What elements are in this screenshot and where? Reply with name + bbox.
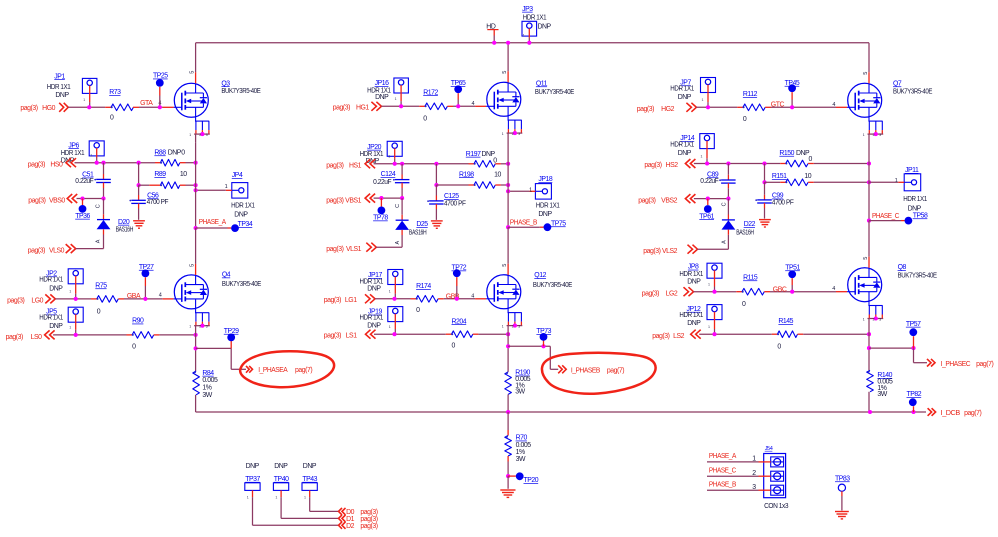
svg-text:R90: R90: [132, 318, 144, 325]
svg-text:0: 0: [416, 307, 420, 314]
svg-text:PHASE_C: PHASE_C: [872, 213, 899, 220]
wire LG2 to R115: [694, 291, 737, 293]
wire R197 to rail: [495, 163, 501, 165]
svg-text:HDR 1X1: HDR 1X1: [679, 312, 703, 319]
svg-text:pag(3): pag(3): [638, 198, 655, 205]
connector JP3 HDR 1X1 DNP: [522, 21, 537, 36]
testpoint TP36: [82, 199, 84, 206]
svg-text:Q3: Q3: [221, 80, 230, 87]
resistor R197 DNP 0: [474, 161, 495, 168]
svg-text:HS1: HS1: [349, 162, 362, 169]
svg-text:R197: R197: [466, 151, 481, 158]
testpoint TP29: [227, 334, 235, 342]
svg-text:HG1: HG1: [356, 105, 369, 112]
transistor Q4: [174, 275, 208, 309]
svg-text:HDR 1X1: HDR 1X1: [523, 15, 547, 22]
svg-text:I_PHASEA: I_PHASEA: [258, 367, 288, 374]
svg-text:TP78: TP78: [373, 215, 388, 222]
svg-text:0: 0: [97, 309, 101, 316]
resistor R140 0.005 1% 3W shunt: [867, 370, 874, 392]
resistor R112: [743, 104, 765, 111]
svg-text:HDR 1X1: HDR 1X1: [360, 279, 384, 286]
wire R190 to bottom bus: [507, 394, 509, 412]
wire PHASE_C to J54: [707, 475, 759, 477]
transistor Q3: [174, 83, 208, 117]
wire rail Q4 source to shunt: [195, 326, 197, 371]
testpoint TP25: [156, 79, 164, 87]
svg-text:TP73: TP73: [536, 328, 551, 335]
svg-text:D20: D20: [118, 219, 130, 226]
svg-text:BUK7Y3R5-40E: BUK7Y3R5-40E: [533, 282, 573, 289]
wire R84 to bottom bus: [195, 395, 197, 412]
svg-text:pag(7): pag(7): [607, 368, 624, 375]
resistor R145: [777, 331, 797, 338]
node PHASE_B: [506, 225, 510, 229]
resistor R89 10: [160, 182, 179, 189]
svg-text:1: 1: [247, 496, 249, 500]
svg-text:DNP: DNP: [49, 286, 63, 293]
svg-text:TP43: TP43: [302, 476, 317, 483]
wire R150 to rail: [808, 163, 814, 165]
svg-text:TP27: TP27: [139, 264, 154, 271]
wire VBS2: [694, 198, 729, 200]
wire R88 to rail: [180, 162, 186, 164]
svg-text:BAS16H: BAS16H: [116, 226, 134, 233]
svg-text:R73: R73: [109, 89, 121, 96]
wire top bus HD net: [196, 42, 869, 44]
svg-text:VBS2: VBS2: [661, 198, 677, 205]
svg-text:HDR 1X1: HDR 1X1: [360, 151, 384, 158]
wire R89 to rail: [180, 184, 186, 186]
svg-text:R75: R75: [95, 282, 107, 289]
svg-text:pag(3): pag(3): [642, 290, 659, 297]
svg-text:1: 1: [701, 154, 703, 158]
svg-text:1%: 1%: [202, 385, 211, 392]
node PHASE_A: [194, 226, 198, 230]
svg-text:GBA: GBA: [127, 293, 141, 300]
svg-text:HDR 1X1: HDR 1X1: [360, 315, 384, 322]
wire HG0 to R73: [68, 106, 105, 108]
wire LG0 to R75: [55, 298, 91, 300]
connector JP6 HDR 1X1: [89, 141, 104, 156]
resistor R150 DNP 0: [786, 160, 808, 167]
svg-text:D25: D25: [416, 221, 428, 228]
connector JP7 HDR 1X1 DNP: [701, 78, 716, 93]
svg-text:DNP: DNP: [367, 322, 381, 329]
svg-text:1: 1: [189, 325, 191, 329]
svg-text:pag(3): pag(3): [326, 197, 343, 204]
svg-text:TP25: TP25: [153, 73, 168, 80]
port D1 pag(3): [339, 515, 346, 522]
svg-text:HDR 1X1: HDR 1X1: [39, 276, 63, 283]
svg-text:DNP: DNP: [274, 463, 288, 470]
testpoint TP65: [454, 85, 462, 93]
svg-text:DNP: DNP: [168, 149, 182, 156]
svg-text:1: 1: [708, 325, 710, 329]
svg-text:HDR 1X1: HDR 1X1: [670, 142, 694, 149]
transistor Q11: [487, 82, 521, 116]
svg-text:BUK7Y3R5-40E: BUK7Y3R5-40E: [221, 88, 261, 95]
wire branch to TP29 and I_PHASEA: [196, 347, 232, 349]
annotation red ellipse I_PHASEA: [240, 351, 334, 387]
svg-text:pag(7): pag(7): [976, 361, 993, 368]
svg-text:JP18: JP18: [538, 176, 553, 183]
wire HS0 branch to R89: [138, 163, 140, 186]
svg-text:TP40: TP40: [274, 476, 289, 483]
wire rail to Q4: [195, 228, 197, 264]
svg-text:LS0: LS0: [31, 334, 43, 341]
testpoint TP61: [707, 199, 709, 206]
testpoint TP45: [788, 84, 796, 92]
svg-text:1: 1: [702, 98, 704, 102]
svg-text:A: A: [96, 239, 102, 243]
connector JP14 HDR 1X1: [700, 134, 715, 149]
svg-text:DNP: DNP: [55, 92, 69, 99]
svg-text:1: 1: [304, 496, 306, 500]
svg-text:PHASE_A: PHASE_A: [709, 453, 737, 460]
wire R145 to rail: [798, 333, 804, 335]
testpoint TP27: [142, 270, 150, 278]
svg-text:JP4: JP4: [232, 172, 243, 179]
svg-text:pag(3): pag(3): [28, 198, 45, 205]
ground C56: [133, 220, 145, 222]
svg-text:R172: R172: [423, 89, 438, 96]
wire GBB net: [438, 298, 444, 300]
connector JP19 HDR 1X1 DNP: [388, 307, 403, 322]
resistor R70 0.005 1% 3W: [505, 436, 512, 457]
svg-text:pag(3): pag(3): [637, 106, 654, 113]
svg-text:0: 0: [181, 149, 185, 156]
svg-text:1: 1: [895, 178, 898, 184]
wire GBA net: [118, 298, 124, 300]
svg-text:5: 5: [863, 72, 869, 75]
wire PHASE_A to J54: [707, 461, 759, 463]
svg-text:pag(3): pag(3): [644, 162, 661, 169]
resistor R73: [111, 104, 133, 111]
wire LS2: [699, 333, 772, 335]
diode D20 BAS16H: [103, 199, 105, 215]
resistor R90: [132, 332, 154, 339]
svg-text:TP45: TP45: [785, 80, 800, 87]
svg-text:VBS0: VBS0: [49, 198, 65, 205]
svg-text:4700 PF: 4700 PF: [444, 200, 466, 207]
wire VBS1: [374, 197, 403, 199]
svg-text:pag(3): pag(3): [324, 297, 341, 304]
wire VLS1: [376, 246, 402, 248]
wire rail Q8 source down: [868, 319, 870, 371]
resistor R190 0.005 1% 3W shunt: [505, 372, 512, 395]
svg-text:0: 0: [452, 342, 456, 349]
svg-text:CON 1x3: CON 1x3: [764, 503, 789, 510]
svg-text:GTA: GTA: [140, 100, 153, 107]
wire phase A drain rail from top bus: [195, 43, 197, 73]
port D0 pag(3): [339, 508, 346, 515]
resistor R174: [416, 296, 438, 303]
svg-text:HG2: HG2: [661, 106, 674, 113]
node PHASE_C: [867, 219, 871, 223]
svg-text:3W: 3W: [877, 391, 887, 398]
svg-text:10: 10: [494, 171, 501, 178]
svg-text:4: 4: [159, 292, 162, 298]
svg-text:pag(3): pag(3): [643, 248, 660, 255]
svg-text:DNP: DNP: [234, 211, 248, 218]
transistor Q12: [487, 275, 521, 309]
svg-text:D0: D0: [346, 509, 355, 516]
wire VLS0: [76, 248, 104, 250]
svg-text:TP36: TP36: [75, 213, 90, 220]
svg-text:C: C: [395, 204, 401, 208]
wire R140 to bottom bus: [868, 392, 870, 412]
svg-text:DNP: DNP: [367, 286, 381, 293]
port I_PHASEC pag(7): [927, 359, 935, 367]
wire HS0 net: [75, 162, 156, 164]
wire phase C rail to PHASE_C: [868, 134, 870, 221]
svg-text:5: 5: [189, 71, 195, 74]
capacitor C56 4700 PF: [138, 185, 140, 195]
connector JP5 HDR 1X1 DNP: [68, 307, 83, 322]
svg-text:JP3: JP3: [522, 6, 533, 13]
svg-text:JP20: JP20: [367, 144, 382, 151]
ground C99: [759, 219, 771, 221]
transistor Q7: [848, 83, 882, 117]
pin 1 J54 PHASE_A: [771, 457, 784, 467]
connector JP1 HDR 1X1 DNP: [82, 78, 97, 93]
svg-text:HS0: HS0: [50, 162, 63, 169]
resistor R84 0.005 1% 3W shunt: [193, 371, 200, 395]
svg-text:HDR 1X1: HDR 1X1: [231, 202, 255, 209]
svg-text:pag(3): pag(3): [360, 523, 377, 530]
annotation red ellipse I_PHASEB: [542, 353, 656, 394]
svg-text:5: 5: [189, 264, 195, 267]
svg-text:pag(7): pag(7): [295, 367, 312, 374]
svg-text:C: C: [722, 202, 728, 206]
wire LG1 to R174: [375, 298, 411, 300]
wire bus to R70: [507, 412, 509, 430]
resistor R151 10: [786, 179, 808, 186]
svg-text:1: 1: [83, 98, 85, 102]
svg-text:1: 1: [708, 283, 710, 287]
wire GBC net: [764, 291, 770, 293]
svg-text:1: 1: [502, 324, 504, 328]
svg-text:3W: 3W: [515, 389, 525, 396]
svg-text:PHASE_C: PHASE_C: [709, 467, 736, 474]
svg-text:pag(3): pag(3): [7, 298, 24, 305]
pin 3 J54 PHASE_B: [771, 485, 784, 495]
wire R204 to rail: [473, 333, 479, 335]
svg-text:10: 10: [180, 171, 187, 178]
svg-text:JP11: JP11: [905, 167, 919, 174]
wire phase B rail to PHASE_B: [507, 133, 509, 227]
svg-text:1%: 1%: [516, 449, 525, 456]
svg-text:HDR 1X1: HDR 1X1: [61, 150, 85, 157]
diode D22 BAS16H: [727, 199, 729, 215]
svg-text:pag(7): pag(7): [964, 410, 981, 417]
svg-text:pag(3): pag(3): [20, 105, 37, 112]
svg-text:3W: 3W: [202, 392, 212, 399]
wire R198 to rail: [495, 184, 501, 186]
svg-text:TP61: TP61: [699, 213, 714, 220]
wire TP43 to D0: [309, 497, 311, 511]
wire branch to R198: [435, 164, 437, 185]
svg-text:Q7: Q7: [893, 80, 902, 87]
wire phase B drain rail: [507, 43, 509, 72]
wire LS1: [374, 333, 446, 335]
testpoint TP34: [231, 224, 239, 232]
svg-text:1: 1: [389, 325, 391, 329]
svg-text:D22: D22: [744, 221, 756, 228]
svg-text:0: 0: [423, 116, 427, 123]
svg-text:C124: C124: [381, 171, 396, 178]
svg-text:1: 1: [502, 132, 504, 136]
wire PHASE_A to TP34: [196, 227, 228, 229]
svg-text:R151: R151: [772, 173, 787, 180]
port I_PHASEB pag(7): [558, 365, 566, 373]
svg-text:I_PHASEB: I_PHASEB: [571, 368, 601, 375]
connector JP16 HDR 1X1 DNP: [394, 78, 409, 93]
svg-text:0.22uF: 0.22uF: [373, 179, 391, 186]
svg-text:PHASE_B: PHASE_B: [709, 481, 737, 488]
transistor Q8: [848, 268, 882, 302]
svg-text:1: 1: [389, 290, 391, 294]
wire R70 to ground: [507, 456, 509, 462]
wire rail Q12 source down: [507, 326, 509, 372]
svg-text:BAS16H: BAS16H: [409, 230, 427, 237]
svg-text:R88: R88: [154, 149, 166, 156]
svg-text:DNP: DNP: [246, 463, 260, 470]
svg-text:HDR 1X1: HDR 1X1: [903, 196, 927, 203]
wire R151 to rail and JP11: [808, 181, 814, 183]
connector JP4 HDR 1X1 DNP: [232, 183, 248, 199]
svg-text:pag(3): pag(3): [324, 333, 341, 340]
svg-text:TP58: TP58: [913, 212, 928, 219]
wire R172 to Q11 gate: [447, 105, 453, 107]
svg-text:C125: C125: [444, 193, 459, 200]
svg-text:1: 1: [275, 496, 277, 500]
svg-text:Q12: Q12: [534, 272, 546, 279]
svg-text:DNP: DNP: [303, 463, 317, 470]
testpoint TP58: [905, 217, 913, 225]
svg-text:LS1: LS1: [346, 333, 358, 340]
capacitor C51 0.22uF: [103, 163, 105, 174]
svg-text:D2: D2: [346, 523, 355, 530]
wire TP40 to D1: [280, 497, 282, 518]
svg-text:0: 0: [777, 343, 781, 350]
svg-text:VLS1: VLS1: [346, 246, 362, 253]
wire branch to TP57 and I_PHASEC: [869, 347, 914, 349]
svg-text:R89: R89: [154, 171, 166, 178]
resistor R172: [425, 103, 448, 110]
wire HS2: [694, 163, 780, 165]
svg-text:TP29: TP29: [224, 328, 239, 335]
wire branch to TP73 and I_PHASEB: [508, 345, 550, 347]
svg-text:1: 1: [69, 290, 71, 294]
svg-text:TP65: TP65: [451, 80, 466, 87]
svg-text:1: 1: [863, 317, 865, 321]
svg-text:pag(3): pag(3): [326, 162, 343, 169]
svg-text:4700 PF: 4700 PF: [772, 199, 794, 206]
svg-text:HDR 1X1: HDR 1X1: [47, 84, 71, 91]
svg-text:PHASE_A: PHASE_A: [199, 219, 227, 226]
svg-text:HDR 1X1: HDR 1X1: [39, 315, 63, 322]
wire R90 to rail: [154, 334, 160, 336]
svg-text:1: 1: [69, 326, 71, 330]
svg-text:pag(3): pag(3): [652, 333, 669, 340]
svg-text:pag(3): pag(3): [6, 334, 23, 341]
svg-text:0.005: 0.005: [202, 377, 218, 384]
svg-text:Q8: Q8: [898, 264, 907, 271]
svg-text:GTC: GTC: [771, 101, 785, 108]
svg-text:Q11: Q11: [536, 80, 548, 87]
connector JP20 HDR 1X1: [387, 141, 402, 156]
svg-text:A: A: [395, 241, 401, 245]
svg-text:R112: R112: [743, 91, 758, 98]
svg-text:LG2: LG2: [666, 290, 678, 297]
connector JP18 HDR 1X1 DNP: [535, 184, 551, 200]
testpoint TP75: [544, 223, 552, 231]
svg-text:R115: R115: [743, 274, 758, 281]
wire VLS2: [698, 248, 729, 250]
svg-text:TP72: TP72: [452, 265, 467, 272]
svg-text:HDR 1X1: HDR 1X1: [670, 86, 694, 93]
testpoint TP82: [911, 410, 915, 414]
wire branch to R151: [764, 164, 766, 183]
svg-text:VLS2: VLS2: [662, 248, 678, 255]
svg-text:HS2: HS2: [666, 162, 679, 169]
svg-text:I_PHASEC: I_PHASEC: [941, 361, 971, 368]
testpoint TP20: [508, 475, 516, 477]
wire GTA net R73 to Q3 gate: [133, 106, 139, 108]
svg-text:10: 10: [804, 173, 811, 180]
svg-text:BUK7Y3R5-40E: BUK7Y3R5-40E: [222, 281, 262, 288]
svg-text:R84: R84: [202, 370, 214, 377]
wire PHASE_B to TP75: [508, 226, 540, 228]
wire GTC net: [765, 106, 771, 108]
svg-text:J54: J54: [765, 446, 773, 452]
svg-text:0: 0: [110, 115, 114, 122]
wire rail to Q8: [868, 221, 870, 257]
svg-text:BUK7Y3R5-40E: BUK7Y3R5-40E: [893, 89, 933, 96]
connector JP2 HDR 1X1 DNP: [68, 269, 83, 284]
svg-text:1: 1: [529, 187, 532, 193]
wire PHASE_B to J54: [707, 489, 759, 491]
svg-text:DNP: DNP: [538, 23, 552, 30]
svg-text:0.005: 0.005: [516, 442, 532, 449]
wire VBS0: [77, 198, 104, 200]
resistor R204: [452, 331, 473, 338]
wire phase C drain rail from top bus: [868, 43, 870, 73]
svg-text:1: 1: [863, 133, 865, 137]
port D2 pag(3): [339, 522, 346, 529]
svg-text:HDR 1X1: HDR 1X1: [679, 271, 703, 278]
svg-text:C: C: [96, 204, 102, 208]
svg-text:JP16: JP16: [375, 80, 390, 87]
ground C125: [431, 220, 443, 222]
wire PHASE_C to TP58: [869, 220, 901, 222]
svg-text:R174: R174: [416, 283, 431, 290]
connector JP17 HDR 1X1 DNP: [388, 270, 403, 285]
svg-text:JP6: JP6: [68, 142, 79, 149]
wire HG1 to R172: [381, 105, 419, 107]
resistor R198 10: [474, 182, 495, 189]
svg-text:0: 0: [809, 156, 813, 163]
testpoint TP73: [540, 333, 548, 341]
svg-text:3W: 3W: [516, 456, 526, 463]
svg-text:TP37: TP37: [245, 476, 260, 483]
capacitor C125 4700 PF: [435, 185, 437, 196]
svg-text:BUK7Y3R5-40E: BUK7Y3R5-40E: [535, 89, 575, 96]
testpoint TP51: [788, 270, 796, 278]
svg-text:LG1: LG1: [345, 297, 357, 304]
